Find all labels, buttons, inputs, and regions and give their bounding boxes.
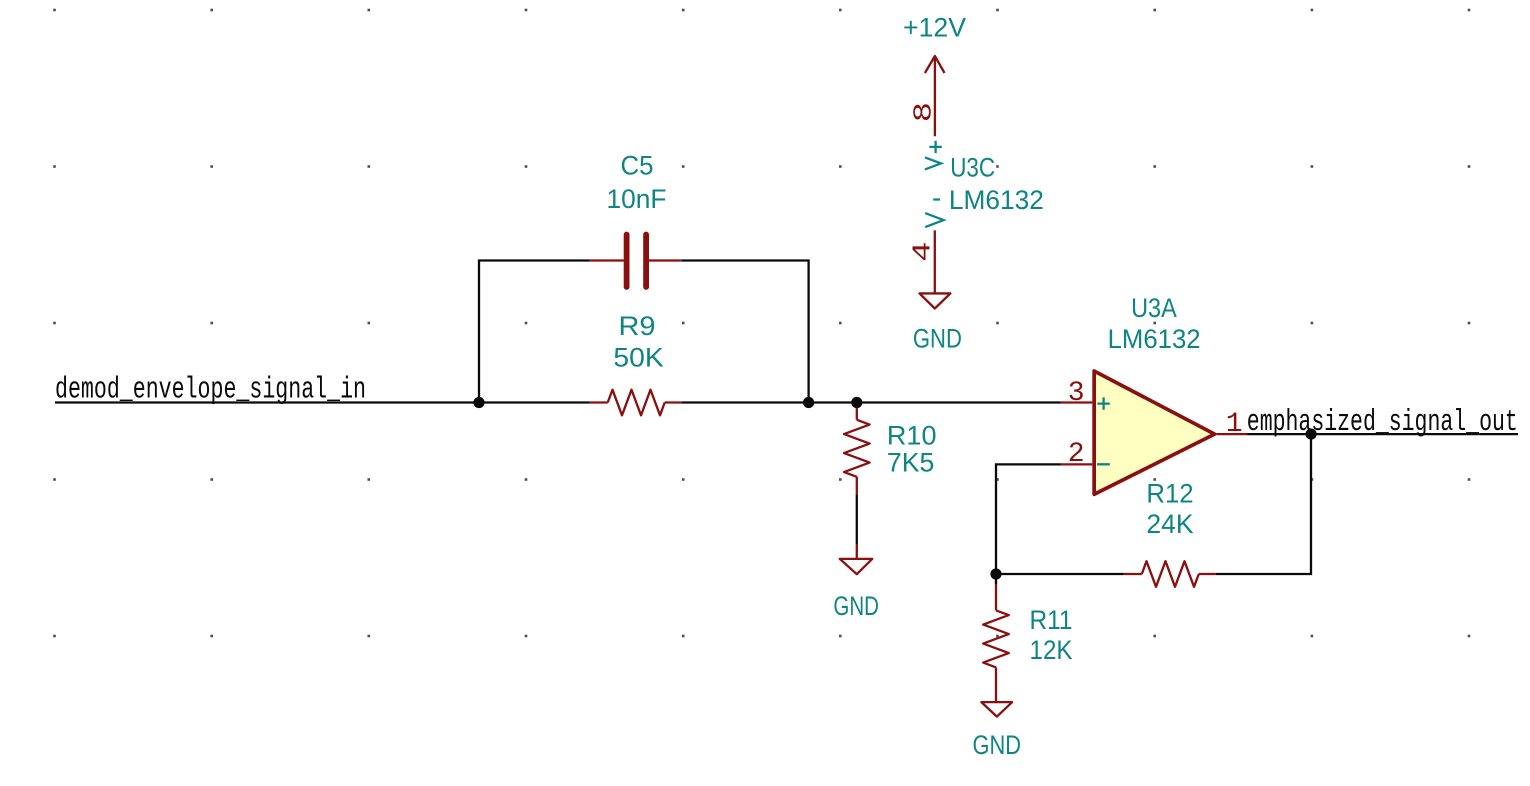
svg-text:+12V: +12V bbox=[903, 13, 966, 43]
svg-text:U3C: U3C bbox=[950, 153, 995, 183]
svg-text:GND: GND bbox=[973, 730, 1022, 760]
svg-text:3: 3 bbox=[1068, 378, 1085, 409]
svg-text:10nF: 10nF bbox=[607, 184, 667, 214]
svg-text:R9: R9 bbox=[619, 311, 656, 341]
svg-text:demod_envelope_signal_in: demod_envelope_signal_in bbox=[55, 372, 366, 407]
svg-text:C5: C5 bbox=[621, 151, 654, 181]
svg-text:GND: GND bbox=[833, 591, 879, 621]
svg-text:GND: GND bbox=[913, 324, 962, 354]
svg-text:LM6132: LM6132 bbox=[949, 185, 1044, 215]
svg-text:1: 1 bbox=[1226, 409, 1243, 440]
svg-text:R11: R11 bbox=[1030, 605, 1073, 635]
svg-text:LM6132: LM6132 bbox=[1108, 324, 1201, 354]
svg-text:R12: R12 bbox=[1146, 479, 1193, 509]
svg-text:U3A: U3A bbox=[1131, 293, 1177, 323]
svg-text:7K5: 7K5 bbox=[887, 448, 935, 478]
svg-text:8: 8 bbox=[909, 102, 939, 122]
svg-text:50K: 50K bbox=[613, 343, 664, 373]
svg-text:24K: 24K bbox=[1146, 509, 1194, 539]
svg-text:12K: 12K bbox=[1030, 635, 1073, 665]
svg-text:2: 2 bbox=[1068, 439, 1085, 470]
svg-text:emphasized_signal_out: emphasized_signal_out bbox=[1247, 405, 1518, 440]
svg-text:4: 4 bbox=[908, 242, 938, 262]
svg-text:R10: R10 bbox=[887, 421, 937, 451]
